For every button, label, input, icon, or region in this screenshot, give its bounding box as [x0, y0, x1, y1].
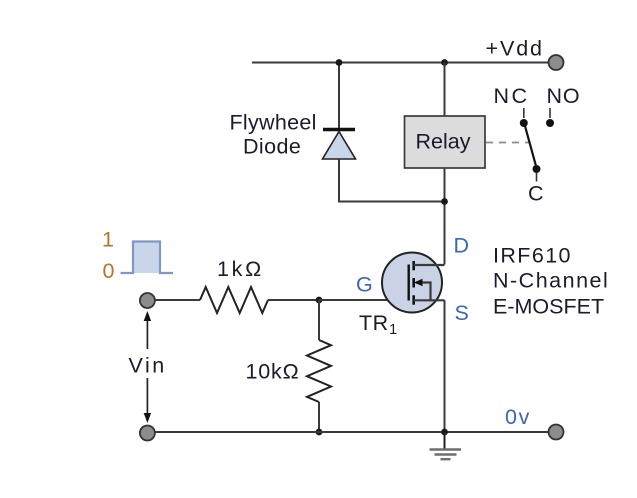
mosfet TR1 substrate arrow	[414, 279, 423, 287]
wire gate node to MOSFET gate	[319, 299, 409, 301]
switch contact NC stub	[523, 108, 525, 118]
wire R2 top lead	[318, 300, 320, 340]
svg-text:0: 0	[103, 259, 115, 283]
svg-text:0v: 0v	[505, 405, 531, 429]
switch contact NC dot	[520, 119, 528, 127]
svg-text:Relay: Relay	[416, 129, 471, 153]
node junction source-bottom rail	[441, 429, 448, 436]
node junction gate-R2	[316, 297, 323, 304]
svg-text:G: G	[356, 273, 373, 297]
svg-text:D: D	[454, 234, 470, 258]
mosfet TR1 source internal wire	[414, 299, 445, 301]
mosfet TR1 body circle	[382, 253, 442, 313]
terminal +Vdd	[549, 55, 564, 70]
resistor R1 1k zigzag	[200, 287, 268, 313]
ground bar 3	[441, 458, 451, 460]
svg-text:Flywheel: Flywheel	[230, 111, 317, 135]
Vin arrow down segment	[146, 378, 148, 416]
wire diode branch top	[338, 63, 340, 130]
node junction relay-diode-drain	[441, 198, 448, 205]
svg-text:Vin: Vin	[129, 354, 167, 378]
mosfet TR1 channel segment source	[412, 295, 415, 304]
switch contact NO stub	[549, 108, 551, 118]
node junction R2-bottom rail	[316, 429, 323, 436]
svg-text:C: C	[528, 182, 544, 206]
terminal Vin bottom	[140, 426, 155, 441]
wire relay to drain node	[444, 168, 446, 265]
svg-text:Diode: Diode	[243, 135, 301, 159]
svg-text:NO: NO	[547, 84, 581, 108]
switch contact C dot	[533, 165, 541, 173]
switch lever C-NC	[525, 126, 536, 166]
svg-text:NC: NC	[494, 84, 530, 108]
diode D1 flywheel cathode bar	[323, 128, 355, 131]
svg-text:IRF610: IRF610	[493, 244, 572, 268]
wire diode anode to corner	[339, 159, 445, 202]
mosfet TR1 body-source strap	[416, 283, 431, 301]
mosfet TR1 channel segment body	[412, 278, 415, 288]
wire source to bottom rail	[444, 300, 446, 432]
mosfet TR1 drain internal wire	[414, 264, 445, 266]
wire relay branch	[444, 63, 446, 117]
mosfet TR1 gate plate	[408, 265, 410, 301]
Vin arrowhead up	[144, 311, 151, 321]
terminal Vin top	[140, 293, 155, 308]
wire top +Vdd rail	[252, 62, 556, 64]
resistor R2 10k zigzag	[307, 340, 331, 402]
ground bar 2	[435, 453, 457, 455]
wire R1 to gate node	[268, 299, 319, 301]
svg-text:N-Channel: N-Channel	[493, 269, 609, 293]
node junction rail-relay	[441, 59, 448, 66]
svg-text:E-MOSFET: E-MOSFET	[493, 295, 604, 319]
pulse waveform Vin	[133, 242, 160, 274]
node junction rail-diode	[336, 59, 343, 66]
svg-text:+Vdd: +Vdd	[486, 37, 544, 61]
svg-text:TR1: TR1	[359, 311, 398, 338]
wire input to R1	[155, 299, 200, 301]
terminal 0v	[549, 425, 564, 440]
ground bar 1	[430, 448, 462, 450]
mosfet TR1 channel segment drain	[412, 261, 415, 270]
Vin arrowhead down	[144, 413, 151, 423]
dashed mechanical link relay-switch	[486, 142, 529, 144]
relay K1 box	[405, 116, 486, 168]
svg-text:1: 1	[102, 228, 114, 252]
ground stem	[444, 432, 446, 449]
diode D1 flywheel triangle	[323, 132, 356, 160]
switch contact NO dot	[546, 119, 554, 127]
wire bottom rail	[147, 431, 556, 433]
wire R2 bottom lead	[318, 402, 320, 432]
switch contact C stub	[536, 173, 538, 182]
svg-text:1kΩ: 1kΩ	[217, 257, 264, 281]
svg-text:S: S	[455, 301, 469, 325]
svg-text:10kΩ: 10kΩ	[246, 360, 300, 384]
Vin arrow up segment	[146, 318, 148, 349]
